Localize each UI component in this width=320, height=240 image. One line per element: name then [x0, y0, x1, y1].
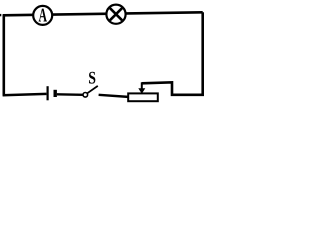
rheostat slider arrow head [138, 88, 145, 94]
wire bottom left to battery [3, 94, 47, 95]
switch S open blade [87, 86, 97, 93]
wire switch to rheostat [99, 95, 129, 97]
rheostat slider arrow stem [141, 82, 143, 89]
battery cell short negative plate [54, 90, 57, 97]
rheostat resistance box [128, 93, 158, 101]
wire slider up over step to right side and up right edge [142, 12, 203, 95]
scan speck at left margin [0, 14, 1, 16]
lamp L1 body [106, 5, 125, 24]
lamp L1 cross stroke 2 [110, 8, 122, 20]
lamp L1 cross stroke 1 [110, 8, 122, 20]
wire battery to switch [57, 93, 83, 96]
wire left vertical side [2, 14, 5, 95]
svg-text:S: S [88, 68, 96, 88]
switch S pivot contact [83, 93, 88, 98]
svg-text:A: A [39, 6, 48, 27]
wire top from left corner through meters to right corner [3, 12, 203, 15]
ammeter A1 body [33, 6, 52, 25]
battery cell long positive plate [46, 86, 48, 100]
